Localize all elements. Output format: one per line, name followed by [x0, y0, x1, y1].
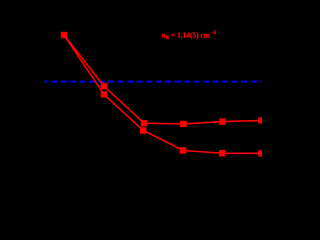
curve A (upper red line)	[64, 35, 262, 124]
marker B2	[101, 91, 107, 97]
marker B3	[140, 127, 146, 133]
svg-text:nK = 1.14(5) cm−3: nK = 1.14(5) cm−3	[162, 30, 217, 41]
marker B5	[219, 150, 225, 156]
marker A1/B1 (shared)	[61, 32, 67, 38]
marker A3	[141, 120, 147, 126]
marker A2	[101, 83, 107, 89]
marker B4	[180, 147, 186, 153]
marker B6	[258, 150, 264, 156]
marker A4	[180, 121, 186, 127]
horizontal threshold line (blue dashed)	[45, 81, 263, 83]
marker A5	[219, 118, 225, 124]
marker A6	[258, 117, 264, 123]
curve B (lower red line)	[64, 35, 262, 153]
